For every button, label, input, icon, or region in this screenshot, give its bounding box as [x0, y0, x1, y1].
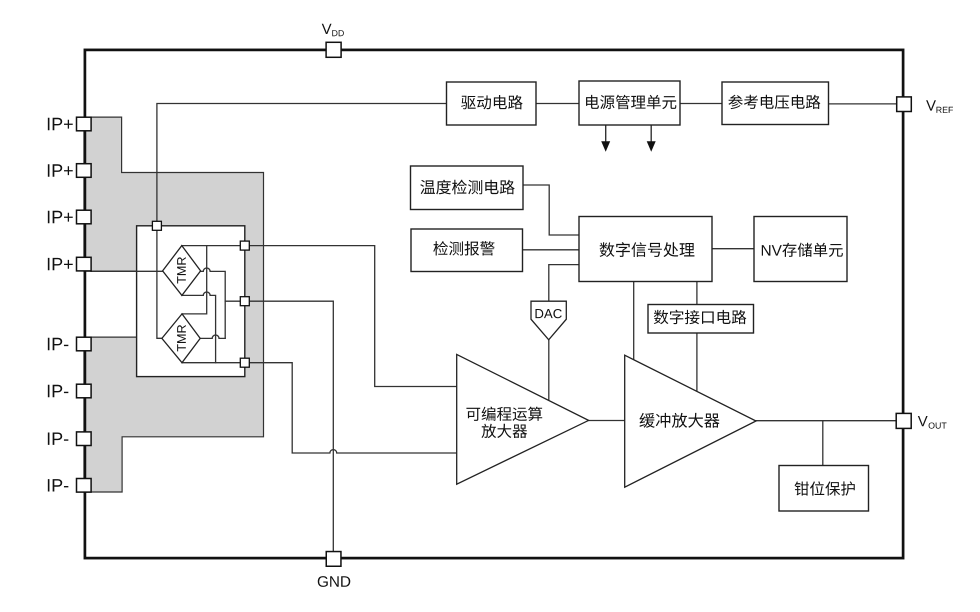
gray current conductor region (IP+ to IP- path)	[84, 117, 264, 492]
label 参考电压电路	[728, 95, 820, 109]
label TMR1	[177, 257, 186, 283]
wire: temperature sense to DSP	[523, 185, 579, 235]
wire: TMR1 bottom node with hop, down	[182, 292, 216, 363]
box power management unit	[579, 81, 680, 125]
label 数字接口电路	[654, 310, 747, 325]
label IP+ 2	[48, 164, 73, 176]
IP+ pin 3	[77, 210, 92, 224]
wire: output to clamp protection	[822, 421, 824, 466]
supply arrow right	[650, 125, 652, 142]
label DAC	[535, 309, 561, 318]
label VOUT	[918, 416, 947, 429]
label 电源管理单元	[586, 95, 676, 109]
wire: sensor mid tap out2 down to GND	[225, 301, 333, 551]
label VDD	[322, 24, 344, 37]
wire: excitation to TMR2 left node	[157, 230, 162, 338]
IP+ pin 2	[77, 164, 92, 178]
IP- pin 1	[77, 337, 92, 351]
wire: power management - voltage reference	[680, 103, 722, 105]
label IP- 4	[48, 479, 68, 491]
label IP+ 1	[48, 118, 73, 130]
box detect alarm	[411, 229, 523, 272]
box NV memory unit	[754, 217, 847, 282]
wire: TMR1 right node with hop, to TMR2 right node	[201, 268, 226, 338]
IP- pin 2	[77, 384, 92, 398]
label IP+ 3	[48, 211, 73, 223]
label 钳位保护	[795, 481, 855, 495]
label 可编程运算	[466, 407, 542, 421]
wire: drive circuit - power management	[536, 103, 579, 105]
box temperature detect circuit	[411, 166, 524, 210]
label IP+ 4	[48, 258, 73, 270]
VOUT pin	[896, 413, 911, 428]
label IP- 3	[48, 432, 68, 444]
label 缓冲放大器	[639, 413, 719, 428]
VREF pin	[897, 97, 912, 112]
label IP- 1	[48, 338, 68, 350]
wire: sensor out1 to amp + input	[182, 246, 457, 387]
wire: alarm to DSP	[523, 249, 580, 251]
label 放大器(1)	[481, 424, 527, 438]
sensor output pin 2	[240, 297, 249, 306]
wire: DSP to buffer amp (gain ctrl)	[633, 282, 635, 360]
VDD pin	[326, 42, 341, 57]
IP- pin 4	[77, 479, 92, 493]
wire: programmable amp out to buffer amp	[589, 420, 625, 422]
sensor bridge box	[137, 226, 245, 377]
wire: out1 branch to TMR2 top node	[182, 246, 207, 314]
wire: DSP - NV memory	[712, 248, 754, 250]
IP+ pin 4	[77, 257, 92, 271]
label NV存储单元	[762, 243, 843, 257]
TMR element 1 (top diamond)	[163, 246, 201, 296]
wire: digital interface to buffer amp	[696, 333, 698, 391]
label 数字信号处理	[600, 242, 695, 257]
GND pin	[326, 552, 341, 567]
label TMR2	[177, 325, 186, 351]
wire: IP+ pin4 to TMR1 left node	[91, 270, 163, 272]
label GND	[318, 576, 351, 587]
chip outline border	[85, 50, 903, 558]
IP+ pin 1	[77, 117, 92, 131]
label 驱动电路	[461, 95, 523, 109]
IP- pin 3	[77, 432, 92, 446]
label 检测报警	[433, 241, 494, 256]
wire: buffer amp output to VOUT pin	[756, 420, 896, 422]
box reference voltage circuit	[722, 82, 829, 125]
wire: sensor out3 to amp - input with hop over GND line	[182, 363, 457, 453]
wire: TMR2 right node with hop	[200, 335, 225, 338]
label VREF	[926, 100, 953, 113]
box clamp protection	[779, 466, 869, 512]
wire: voltage reference - VREF pin	[829, 103, 897, 105]
wire: DSP to digital interface	[696, 282, 698, 305]
box digital signal processing	[579, 217, 712, 282]
label IP- 2	[48, 385, 68, 397]
wire: DAC to programmable amp	[548, 340, 550, 401]
box digital interface circuit	[648, 305, 754, 334]
box drive circuit	[447, 82, 537, 125]
buffer amplifier triangle	[625, 355, 756, 487]
sensor output pin 1	[240, 241, 249, 250]
label 温度检测电路	[420, 180, 514, 195]
programmable op-amp triangle	[457, 354, 589, 484]
DAC block	[531, 301, 566, 340]
sensor excitation pin	[152, 221, 161, 230]
TMR element 2 (bottom diamond)	[162, 314, 200, 363]
wire: DSP to DAC	[549, 265, 579, 302]
sensor output pin 3	[240, 358, 249, 367]
wire: drive circuit to sensor excitation pin	[157, 104, 447, 226]
supply arrow left	[605, 125, 607, 142]
